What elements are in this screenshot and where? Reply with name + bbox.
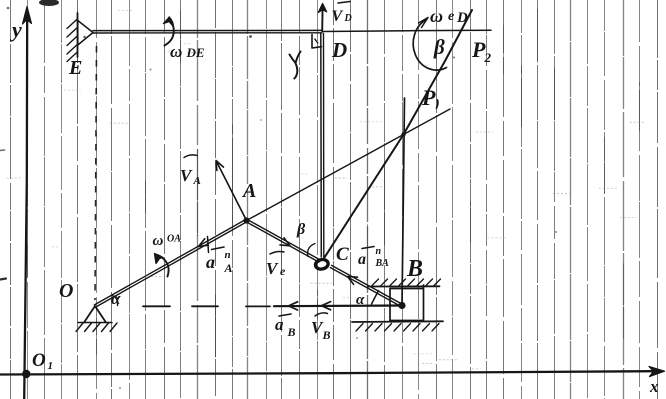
vertical construction line B-P1 xyxy=(402,98,405,305)
extension of OA through P1 xyxy=(247,109,451,221)
svg-text:β: β xyxy=(296,221,306,238)
node P1 junction xyxy=(401,132,405,136)
x axis xyxy=(0,371,652,374)
label V_B with bar xyxy=(315,313,328,316)
svg-text:a: a xyxy=(275,315,284,334)
relative velocity V_e arrow on AC xyxy=(280,238,290,246)
svg-text:B: B xyxy=(322,328,331,342)
svg-text:ω: ω xyxy=(170,42,182,61)
svg-text:α: α xyxy=(111,289,121,308)
svg-text:A: A xyxy=(193,175,201,187)
acceleration vector a_A^n (on link OA) xyxy=(199,239,209,247)
scan smudge xyxy=(39,0,59,6)
label V_A with bar xyxy=(184,155,197,158)
svg-text:e: e xyxy=(448,9,454,24)
svg-text:A: A xyxy=(241,180,256,202)
slider guide upper (hatched) xyxy=(368,285,440,287)
svg-text:x: x xyxy=(649,377,659,396)
svg-text:D: D xyxy=(331,38,347,62)
svg-text:a: a xyxy=(358,251,366,268)
svg-text:E: E xyxy=(68,57,82,79)
svg-text:n: n xyxy=(376,246,382,257)
label a_A^n xyxy=(212,247,225,250)
svg-text:ω: ω xyxy=(430,6,443,26)
acceleration vector a_BA^n on link CB xyxy=(348,277,358,285)
svg-text:D: D xyxy=(344,13,352,24)
link AC xyxy=(246,222,319,263)
velocity vector V_B xyxy=(322,302,331,310)
y axis xyxy=(24,10,27,399)
construction line C-P1-P2 xyxy=(324,10,473,259)
svg-text:C: C xyxy=(336,244,349,265)
dashed line O-B (horizontal) xyxy=(143,305,170,307)
slider block B xyxy=(390,285,424,321)
omega_ED rotation arc xyxy=(413,20,446,71)
velocity vector V_D xyxy=(321,6,323,31)
scan specks xyxy=(83,36,85,38)
origin O1 xyxy=(22,370,30,378)
svg-text:B: B xyxy=(406,256,423,282)
slider guide lower (hatched) xyxy=(352,320,443,323)
svg-text:O: O xyxy=(32,350,46,371)
svg-text:V: V xyxy=(180,166,193,185)
label a_BA^n xyxy=(362,247,374,249)
svg-text:O: O xyxy=(59,280,73,302)
link ED xyxy=(93,29,322,31)
pivot support O xyxy=(84,306,106,323)
pin B xyxy=(398,302,405,309)
svg-text:OA: OA xyxy=(167,234,181,245)
angle alpha at O xyxy=(112,296,118,306)
right-angle mark at D xyxy=(312,35,322,49)
svg-text:B: B xyxy=(287,325,296,339)
svg-text:ω: ω xyxy=(153,233,164,249)
svg-text:P: P xyxy=(421,85,436,110)
angle label gamma xyxy=(290,52,301,64)
svg-text:2: 2 xyxy=(484,50,492,65)
label V_D with bar xyxy=(338,2,350,4)
svg-text:V: V xyxy=(332,8,344,25)
svg-text:DE: DE xyxy=(186,45,205,60)
link CB xyxy=(330,268,401,307)
acceleration vector a_B xyxy=(289,302,298,310)
svg-text:D: D xyxy=(456,10,468,26)
edge marks xyxy=(0,279,6,280)
label V_e with bar xyxy=(270,252,284,254)
svg-text:BA: BA xyxy=(375,258,390,269)
dashed construction line E-O xyxy=(95,46,97,300)
node A xyxy=(243,217,249,223)
svg-text:1: 1 xyxy=(48,360,54,372)
svg-text:β: β xyxy=(433,35,445,59)
pin joint C xyxy=(315,258,329,270)
fixed support E xyxy=(77,13,79,57)
svg-text:a: a xyxy=(206,252,215,272)
svg-text:A: A xyxy=(224,261,233,275)
label a_B with bar xyxy=(279,314,291,316)
velocity vector V_A xyxy=(217,162,247,221)
omega_OA rotation arrow xyxy=(158,255,169,277)
svg-text:e: e xyxy=(280,264,286,278)
link OA xyxy=(96,222,248,308)
solid segment with V_B, a_B arrows xyxy=(274,304,402,307)
svg-text:n: n xyxy=(225,249,231,261)
omega_DE rotation arrow xyxy=(165,18,174,46)
line ED extension to P2 xyxy=(322,30,491,31)
link DC xyxy=(320,34,323,258)
svg-text:V: V xyxy=(266,259,279,278)
